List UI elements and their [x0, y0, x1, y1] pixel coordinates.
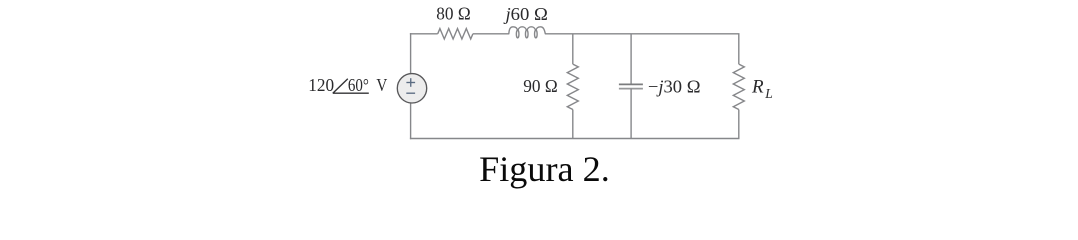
svg-text:120: 120	[308, 75, 334, 95]
capacitor -j30ohm top plate	[619, 83, 643, 85]
wire between 80ohm and inductor	[473, 33, 509, 35]
wire left below source	[410, 103, 412, 139]
source plus sign	[406, 82, 415, 84]
svg-text:R: R	[751, 77, 764, 98]
wire left above source	[410, 33, 412, 74]
wire capacitor branch top	[630, 34, 632, 85]
svg-text:j60 Ω: j60 Ω	[503, 4, 547, 24]
wire right branch bottom	[738, 110, 740, 139]
capacitor -j30ohm bottom plate	[619, 88, 643, 90]
resistor RL	[733, 64, 744, 109]
wire bottom	[410, 138, 740, 140]
wire right branch top	[738, 34, 740, 64]
wire 90ohm branch bottom	[572, 110, 574, 139]
resistor 90 ohm	[567, 64, 578, 109]
svg-text:90 Ω: 90 Ω	[523, 76, 557, 96]
resistor 80 ohm	[438, 29, 473, 39]
svg-text:V: V	[376, 75, 387, 95]
svg-text:L: L	[764, 86, 773, 101]
source minus sign	[406, 92, 415, 94]
inductor j60 ohm	[509, 27, 546, 34]
svg-text:60°: 60°	[348, 75, 369, 95]
svg-text:Figura 2.: Figura 2.	[479, 149, 610, 189]
wire top-right segment	[545, 33, 739, 35]
svg-text:80 Ω: 80 Ω	[436, 4, 470, 24]
wire capacitor branch bottom	[630, 89, 632, 139]
wire top-left segment	[410, 33, 438, 35]
wire 90ohm branch top	[572, 34, 574, 64]
angle symbol slash	[333, 79, 348, 94]
angle symbol underline	[333, 92, 369, 94]
svg-text:−j30 Ω: −j30 Ω	[648, 76, 701, 96]
voltage source circle	[397, 74, 426, 103]
